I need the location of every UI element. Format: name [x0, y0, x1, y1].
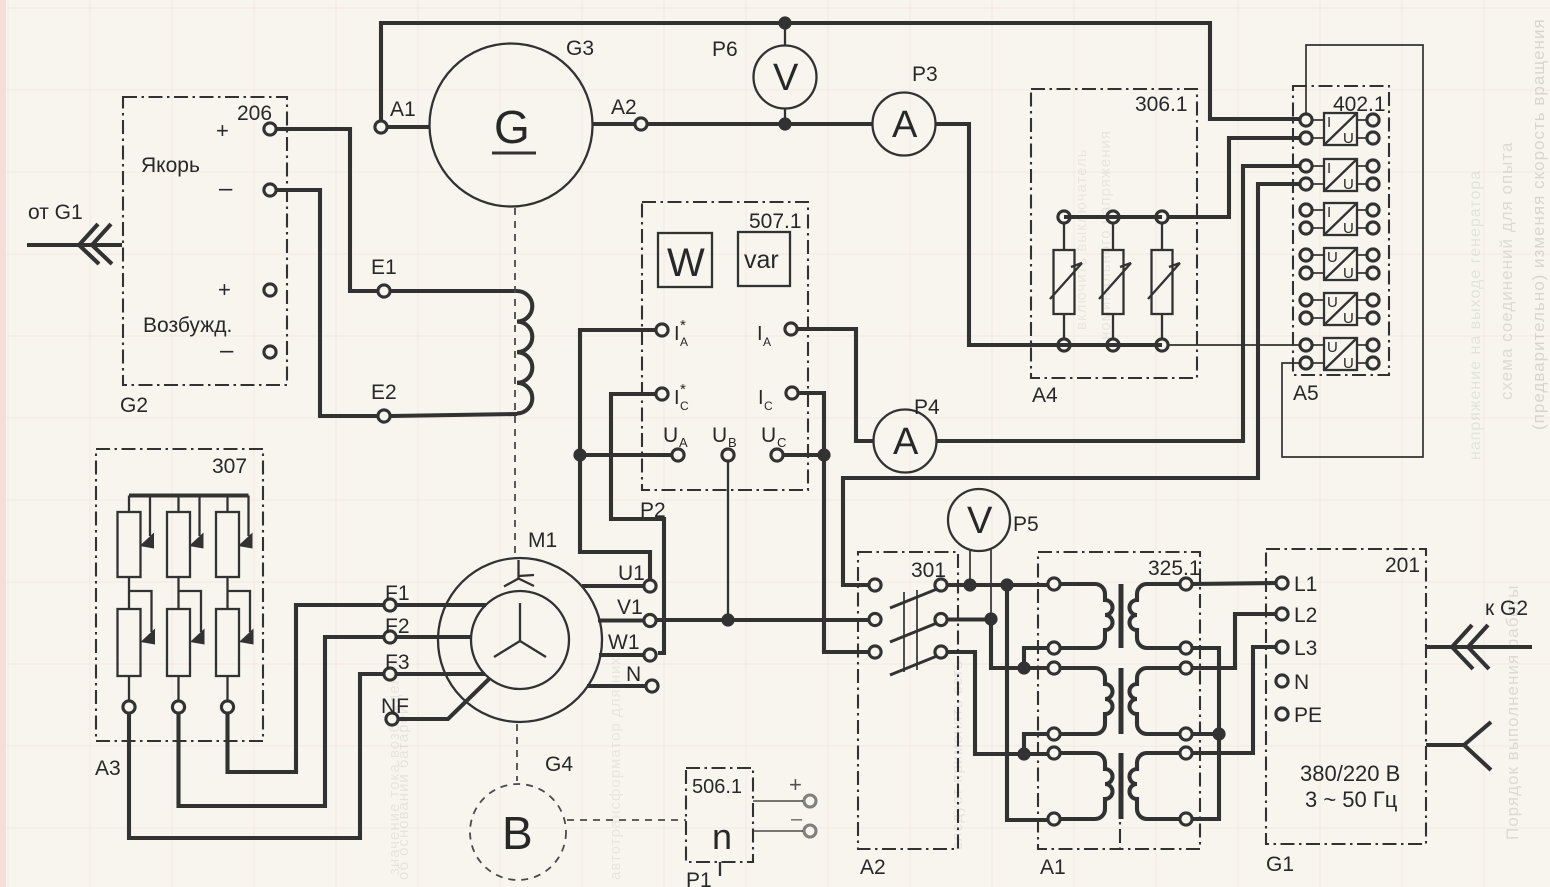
svg-text:F2: F2	[385, 615, 410, 638]
svg-text:U: U	[1343, 355, 1354, 372]
svg-text:+: +	[216, 118, 229, 143]
junction phase1 branch	[1000, 578, 1013, 591]
field coil of G3	[517, 291, 532, 413]
wire F2 stub into rotor	[397, 635, 472, 639]
svg-text:B: B	[728, 435, 737, 450]
wire A1 to G3	[388, 125, 430, 129]
svg-text:Порядок выполнения работы: Порядок выполнения работы	[1503, 584, 1522, 840]
terminal L1	[1276, 577, 1288, 589]
wire phase3 pole3 to primary junction	[948, 652, 1048, 754]
svg-text:A: A	[893, 421, 919, 463]
rheostat A3-1 top	[118, 496, 155, 578]
terminal I*C	[656, 388, 668, 400]
svg-text:U: U	[1327, 294, 1338, 311]
motor M1 outer circle	[438, 558, 602, 722]
fork symbol (further loads)	[1426, 722, 1491, 770]
P1 output +	[753, 800, 803, 802]
svg-text:507.1: 507.1	[749, 210, 802, 233]
A4 top bus to A5	[1064, 138, 1300, 217]
wire A3 col1 to F3	[129, 674, 383, 838]
rheostat A4-1	[1050, 211, 1082, 351]
junction UC/IC	[817, 448, 830, 461]
wire P6 stem top	[784, 23, 786, 46]
terminal 206 excitation -	[264, 346, 276, 358]
wire G3 to A2	[593, 122, 634, 126]
W box	[658, 233, 712, 287]
wire 206- to E2	[277, 190, 377, 416]
terminal L2	[1276, 608, 1288, 620]
var box	[738, 232, 790, 286]
wire sec3 top to L3	[1192, 647, 1275, 753]
junction phase2 / primary1-2	[1017, 661, 1030, 674]
svg-text:U: U	[1343, 220, 1354, 237]
svg-text:F1: F1	[385, 582, 410, 605]
svg-text:U: U	[1343, 176, 1354, 193]
svg-text:W: W	[667, 241, 705, 285]
block G2 (206 armature/excitation source)	[123, 97, 287, 385]
svg-text:307: 307	[212, 455, 247, 478]
block A1 (325.1 transformer group)	[1038, 552, 1200, 849]
switch coupling bars	[903, 592, 905, 672]
block A3 (307 rheostat bank)	[96, 449, 263, 741]
svg-text:3 ~ 50 Гц: 3 ~ 50 Гц	[1305, 787, 1398, 812]
svg-text:N: N	[626, 663, 641, 686]
wire secondary1 top to L1	[1192, 583, 1275, 584]
wire phase1 pole1 to transformer1 primary top	[948, 583, 1048, 587]
svg-text:A: A	[892, 104, 918, 146]
converter A5-4 (U/U)	[1300, 248, 1379, 282]
terminal F3	[384, 668, 396, 680]
transformer T3 core	[1119, 753, 1124, 819]
converter A5-5 (U/U)	[1300, 293, 1379, 327]
svg-text:506.1: 506.1	[692, 776, 742, 798]
svg-text:N: N	[1294, 671, 1309, 694]
svg-text:Якорь: Якорь	[141, 154, 200, 177]
svg-text:*: *	[680, 381, 686, 398]
svg-text:A2: A2	[860, 856, 886, 879]
svg-text:U: U	[663, 424, 678, 447]
A3 top bus	[129, 493, 249, 497]
wire sec2 top to L2	[1192, 614, 1275, 668]
voltmeter P5	[948, 489, 1010, 551]
loop wire around A5	[1282, 45, 1423, 457]
terminal NF	[386, 713, 398, 725]
svg-text:I: I	[674, 387, 680, 409]
svg-text:A5: A5	[1293, 382, 1319, 405]
terminal L3	[1276, 641, 1288, 653]
terminal IC	[786, 387, 798, 399]
transformer T2 core	[1119, 668, 1124, 734]
svg-text:I: I	[758, 387, 764, 409]
dashed coupling B to P1	[567, 819, 686, 821]
ammeter P4	[874, 410, 937, 473]
rheostat A3-2 top	[167, 496, 204, 578]
wire UA to junction	[580, 453, 671, 457]
terminal I*A	[656, 324, 668, 336]
svg-text:–: –	[220, 337, 234, 364]
A4 bottom bus thin to A5	[1162, 344, 1300, 346]
svg-text:P3: P3	[912, 63, 938, 86]
wire A4 bottom bus thick	[969, 343, 1162, 347]
terminal A1	[375, 121, 387, 133]
svg-text:от G1: от G1	[28, 201, 83, 224]
junction UB/V1	[721, 613, 734, 626]
svg-text:+: +	[789, 772, 802, 797]
transformer T3 secondary winding	[1130, 747, 1193, 825]
terminal E1	[378, 285, 390, 297]
svg-text:I: I	[674, 323, 680, 345]
arrow to G2	[1426, 625, 1532, 669]
wire P6 stem bottom	[784, 108, 786, 124]
block G1 (201 mains supply)	[1266, 549, 1426, 844]
svg-text:W1: W1	[608, 631, 640, 654]
svg-text:P4: P4	[914, 396, 940, 419]
P1 output -	[753, 830, 803, 832]
svg-text:схема соединений для опыта: схема соединений для опыта	[1497, 142, 1516, 400]
wire P3 to A4 bottom bus	[936, 124, 1057, 345]
wire I*C to W1	[611, 394, 664, 653]
svg-text:L3: L3	[1294, 637, 1317, 660]
svg-text:A: A	[679, 435, 688, 450]
rheostat A3-2 bottom	[167, 577, 205, 713]
svg-text:A1: A1	[1040, 856, 1066, 879]
svg-text:A4: A4	[1032, 384, 1058, 407]
block P1 (506.1 speed meter)	[686, 768, 753, 862]
rheostat A4-3	[1148, 211, 1180, 351]
wire star point: sec1 bottom / sec2 bottom / sec3 bottom	[1192, 648, 1219, 819]
terminal N	[1276, 675, 1288, 687]
wire primary1 bottom to junction	[1024, 648, 1048, 668]
wire V1 to switch pole2	[657, 618, 868, 622]
transformer T1 core	[1119, 584, 1124, 648]
svg-text:F3: F3	[385, 651, 410, 674]
svg-text:G2: G2	[120, 394, 148, 417]
svg-text:напряжение на выходе генератор: напряжение на выходе генератора	[1467, 170, 1484, 460]
wire F1 stub into rotor	[397, 603, 486, 607]
svg-text:G4: G4	[545, 753, 573, 776]
generator G3	[430, 44, 593, 207]
svg-text:G1: G1	[1266, 853, 1294, 876]
terminal V1	[644, 614, 656, 626]
terminal PE	[1276, 708, 1288, 720]
wire U1 stub	[582, 584, 643, 588]
switch pole 1	[869, 579, 947, 608]
svg-text:номинального напряжения: номинального напряжения	[1097, 130, 1114, 340]
terminal 206 excitation +	[264, 284, 276, 296]
svg-text:V: V	[773, 57, 799, 99]
svg-text:U: U	[1327, 249, 1338, 266]
ammeter P3	[873, 93, 936, 156]
svg-text:C: C	[777, 435, 786, 450]
transformer T1 secondary winding	[1130, 578, 1193, 654]
wire I*A to UA junction down to U1	[580, 330, 655, 579]
svg-text:(предварительно) изменяя скоро: (предварительно) изменяя скорость вращен…	[1529, 18, 1548, 430]
svg-text:U: U	[761, 424, 776, 447]
rotor star symbol	[494, 603, 546, 657]
svg-text:A: A	[763, 335, 771, 349]
converter A5-6 (U/U)	[1300, 338, 1379, 372]
terminal A2	[635, 118, 647, 130]
wire A1 up and top bus to A5	[381, 23, 1300, 120]
converter A5-2 (I/U)	[1300, 159, 1379, 193]
wire A5 row2 bottom to switch pole1	[843, 184, 1300, 585]
junction phase3 / primary2-3	[1017, 747, 1030, 760]
svg-text:C: C	[764, 399, 773, 413]
junction P5 left	[963, 578, 976, 591]
svg-text:325.1: 325.1	[1148, 557, 1201, 580]
svg-text:Возбужд.: Возбужд.	[143, 314, 232, 337]
svg-text:M1: M1	[528, 529, 557, 552]
switch pole 2	[869, 613, 947, 642]
svg-text:n: n	[712, 816, 732, 857]
dashed shaft G3 to M1	[514, 208, 516, 556]
wire A3 col3 to F1	[228, 605, 384, 772]
terminal F1	[384, 599, 396, 611]
transformer T2 primary winding	[1048, 662, 1113, 740]
svg-text:E1: E1	[371, 256, 397, 279]
terminal U1	[644, 580, 656, 592]
wire 206+ to E1	[277, 129, 377, 291]
svg-text:*: *	[680, 317, 686, 334]
transformer T2 secondary winding	[1130, 662, 1193, 740]
svg-text:U: U	[1343, 265, 1354, 282]
motor M1 inner circle	[471, 591, 569, 689]
wire A2 to P3	[648, 122, 873, 126]
svg-text:автотрансформатор для них: автотрансформатор для них	[607, 656, 624, 880]
wire phase2 down to primary junction	[991, 619, 1048, 668]
P5 stem right	[990, 549, 992, 619]
terminal UB	[722, 449, 734, 461]
wire A3 col2 to F2	[179, 637, 384, 806]
svg-text:306.1: 306.1	[1135, 93, 1188, 116]
svg-text:U: U	[1343, 310, 1354, 327]
wire W1 stub	[599, 653, 643, 657]
svg-text:значение тока возбуждения: значение тока возбуждения	[386, 657, 403, 875]
junction P5 right / phase2	[984, 612, 997, 625]
junction top bus / P6	[778, 16, 791, 29]
svg-text:A1: A1	[390, 98, 416, 121]
pink left edge band	[0, 0, 6, 887]
junction P6 bottom	[778, 117, 791, 130]
wire V1 stub	[598, 618, 643, 622]
svg-text:206: 206	[237, 102, 272, 125]
wire phase1 down to primary3 bottom	[1007, 585, 1048, 820]
svg-text:A3: A3	[95, 757, 121, 780]
wire N stub	[587, 684, 645, 688]
switch pole 3	[869, 646, 947, 675]
svg-text:L1: L1	[1294, 573, 1317, 596]
junction I*A/UA	[573, 448, 586, 461]
voltmeter P6	[754, 46, 817, 109]
block A4 (306.1 rheostat bank)	[1031, 89, 1197, 378]
svg-text:U: U	[1327, 339, 1338, 356]
wire primary2 bottom to junction	[1024, 734, 1048, 754]
svg-text:201: 201	[1385, 554, 1420, 577]
svg-text:V1: V1	[617, 596, 643, 619]
svg-text:P6: P6	[712, 38, 738, 61]
rheostat A4-2	[1099, 211, 1131, 351]
rheostat A3-3 top	[216, 496, 253, 578]
svg-text:A: A	[680, 335, 688, 349]
svg-text:–: –	[219, 175, 233, 202]
svg-text:G: G	[494, 101, 530, 153]
terminal UC	[771, 449, 783, 461]
svg-text:+: +	[218, 277, 231, 302]
wire F3 stub into rotor	[397, 672, 485, 676]
svg-text:PE: PE	[1294, 704, 1322, 727]
junction star point	[1212, 727, 1225, 740]
tacho B dashed circle	[470, 784, 566, 880]
wire phase2 pole2 to junction	[948, 617, 991, 621]
converter A5-1 (I/U)	[1300, 113, 1379, 147]
svg-text:P5: P5	[1013, 513, 1039, 536]
svg-text:I: I	[1327, 114, 1331, 131]
svg-text:I: I	[757, 323, 763, 345]
wire IA to P4	[798, 329, 873, 441]
block P2 (507.1 wattmeter)	[642, 202, 808, 490]
wire star point branch to sec2 bottom	[1192, 732, 1219, 736]
terminal 206 armature +	[264, 123, 276, 135]
rheostat A3-1 bottom	[118, 577, 156, 713]
svg-text:U: U	[1343, 130, 1354, 147]
svg-text:L2: L2	[1294, 604, 1317, 627]
svg-text:NF: NF	[381, 695, 409, 718]
terminal IA	[785, 323, 797, 335]
svg-text:G3: G3	[566, 37, 594, 60]
transformer T1 primary winding	[1048, 578, 1113, 654]
A1 inner divider	[1119, 778, 1121, 849]
svg-text:A2: A2	[611, 96, 637, 119]
wire UC to IC vertical	[784, 453, 824, 457]
svg-text:C: C	[680, 399, 689, 413]
wire A4 top bus segment between terminals	[1064, 215, 1162, 219]
wire E2 to field coil	[391, 414, 517, 416]
stator star symbol	[504, 560, 534, 587]
wire P4 to A5 row2 top	[937, 166, 1300, 441]
svg-text:I: I	[1327, 204, 1331, 221]
svg-text:U1: U1	[618, 562, 645, 585]
wire NF into rotor	[399, 679, 489, 719]
block A5 (402.1 converters)	[1293, 86, 1389, 375]
dashed shaft M1 to B	[516, 724, 518, 781]
terminal UA	[672, 449, 684, 461]
wire IC down to switch pole3	[799, 393, 868, 652]
arrow from G1	[27, 224, 122, 264]
terminal N	[646, 680, 658, 692]
svg-text:E2: E2	[371, 381, 397, 404]
svg-text:–: –	[791, 808, 803, 830]
P1 border stub	[719, 862, 721, 876]
svg-text:I: I	[1327, 160, 1331, 177]
svg-text:U: U	[712, 424, 727, 447]
terminal 206 armature -	[264, 184, 276, 196]
svg-text:V: V	[967, 500, 993, 542]
svg-text:P1: P1	[686, 869, 712, 887]
terminal W1	[644, 649, 656, 661]
wire E1 to field coil	[391, 289, 517, 293]
wire UB down to V1 line	[727, 462, 729, 620]
P5 stem left	[969, 549, 971, 585]
rheostat A3-3 bottom	[216, 577, 254, 713]
converter A5-3 (I/U)	[1300, 203, 1379, 237]
terminal F2	[384, 631, 396, 643]
transformer T3 primary winding	[1048, 747, 1113, 825]
svg-text:B: B	[502, 807, 533, 859]
svg-text:380/220 В: 380/220 В	[1300, 761, 1400, 786]
svg-text:к G2: к G2	[1485, 597, 1528, 620]
svg-text:var: var	[744, 246, 779, 274]
block A2 (301 switch)	[858, 552, 958, 849]
terminal E2	[378, 410, 390, 422]
